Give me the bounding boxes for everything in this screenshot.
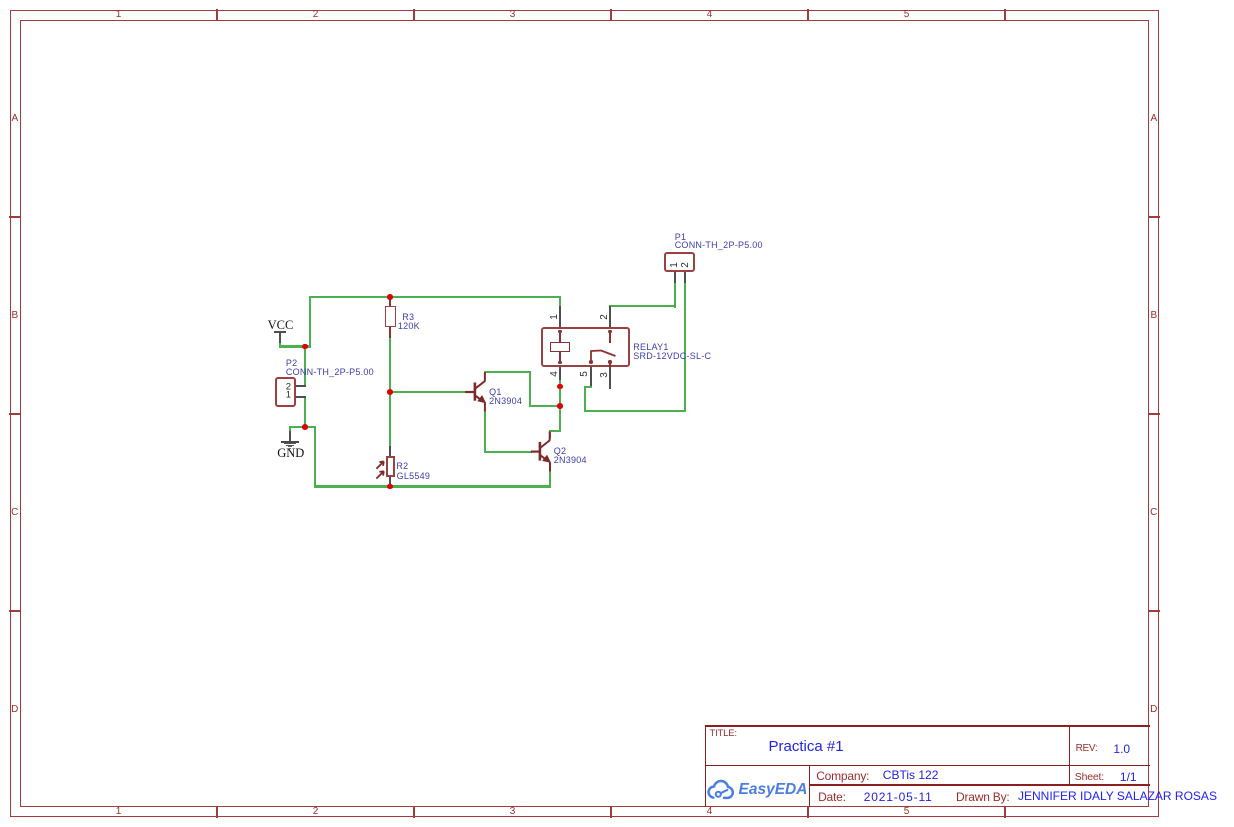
- EasyEDA logo cloud icon: [707, 778, 737, 800]
- top ruler tick 4: [807, 9, 808, 20]
- title block top edge: [705, 725, 1150, 726]
- resistor R3 top lead: [389, 297, 391, 308]
- title block label Company:: [816, 770, 869, 782]
- relay internal pin dot: [558, 330, 561, 333]
- wire: Q2 emitter to bottom rail: [549, 470, 551, 488]
- wire: collector jog to relay pin4 column: [529, 405, 562, 407]
- relay pin number 3: [600, 372, 610, 378]
- left ruler tick 1: [9, 216, 20, 217]
- connector P2 name label: [286, 359, 298, 368]
- P2 pin number 2: [286, 382, 291, 392]
- pin: R2 top lead: [389, 446, 391, 458]
- top ruler tick 2: [413, 9, 414, 20]
- wire: VCC stub lower: [279, 340, 281, 347]
- bottom ruler number 3: [510, 807, 516, 817]
- wire: bottom rail: [314, 485, 551, 487]
- bottom ruler number 1: [116, 807, 122, 817]
- right ruler letter A: [1150, 114, 1157, 124]
- relay internal pin dot: [608, 330, 611, 333]
- EasyEDA logo text: [739, 782, 808, 798]
- wire: left drop from top rail: [309, 296, 311, 348]
- title block row line 1: [705, 765, 1150, 766]
- connector P1 value CONN-TH_2P-P5.00: [675, 241, 763, 250]
- relay coil rectangle: [550, 342, 570, 352]
- wire: P1 pin1 vertical: [674, 281, 676, 308]
- transistor Q1 2N3904 symbol: [462, 368, 490, 416]
- wire: jog to Q2 collector: [549, 430, 562, 432]
- connector P1 body box: [664, 252, 695, 272]
- transistor Q2 value 2N3904: [554, 456, 587, 465]
- relay internal pin dot: [589, 360, 592, 363]
- right ruler letter B: [1150, 311, 1157, 321]
- relay pin number 2: [600, 314, 610, 320]
- bottom ruler tick 5: [1004, 806, 1005, 818]
- GND net label: [277, 447, 304, 460]
- left ruler tick 3: [9, 610, 20, 611]
- wire: pin5 column down: [584, 386, 586, 413]
- right ruler letter D: [1150, 705, 1157, 715]
- wire: relay pin4 column: [559, 377, 561, 432]
- title block label REV:: [1076, 744, 1098, 754]
- top ruler number 4: [707, 10, 713, 20]
- transistor Q1 name label: [489, 388, 502, 397]
- connector P1 name label: [675, 233, 687, 242]
- wire: top VCC rail: [309, 296, 561, 298]
- P1 pin number 1: [670, 262, 680, 268]
- left ruler tick 2: [9, 413, 20, 414]
- title value CBTis 122: [883, 769, 939, 781]
- bottom ruler tick 3: [610, 806, 611, 818]
- wire: collector jog vertical: [529, 371, 531, 407]
- bottom ruler tick 4: [807, 806, 808, 818]
- junction dot node R2 bottom: [387, 484, 393, 490]
- wire: pin5 run to P1 pin2: [584, 410, 687, 412]
- ground symbol bars: [281, 441, 299, 442]
- wire: relay pin5 jog: [584, 386, 593, 388]
- pin: relay pin3 lead (NC): [609, 361, 611, 389]
- resistor R3 value 120K: [398, 322, 420, 331]
- title value 2021-05-11: [864, 791, 933, 803]
- photoresistor R2 name label: [396, 462, 408, 471]
- top ruler tick 5: [1004, 9, 1005, 20]
- pin: P1 pin2 lead: [684, 271, 686, 283]
- photoresistor R2 light arrows: [374, 457, 388, 481]
- relay coil bottom lead: [559, 351, 561, 363]
- VCC net label: [268, 319, 294, 332]
- right ruler letter C: [1150, 508, 1157, 518]
- relay switch blade: [588, 347, 618, 364]
- wire: P1 pin2 vertical: [684, 281, 686, 413]
- wire: Q1 base wire: [389, 391, 466, 393]
- bottom ruler tick 1: [216, 806, 217, 818]
- wire: GND short drop: [289, 426, 291, 434]
- junction dot node Q1 base: [387, 389, 393, 395]
- relay pin number 4: [550, 371, 560, 377]
- relay RELAY1 value SRD-12VDC-SL-C: [633, 352, 711, 361]
- pin: relay pin1 lead: [559, 306, 561, 332]
- title block row line 2: [809, 784, 1150, 785]
- left ruler letter B: [11, 311, 18, 321]
- title block label TITLE:: [710, 729, 737, 739]
- wire: Q1 emitter to Q2 base: [484, 451, 532, 453]
- resistor R3 name label: [402, 313, 414, 322]
- top ruler number 3: [510, 10, 516, 20]
- top ruler number 5: [904, 10, 910, 20]
- resistor R3 body: [385, 306, 396, 327]
- pin: R2 bottom lead: [389, 476, 391, 486]
- left ruler letter C: [11, 508, 18, 518]
- title value Practica #1: [769, 739, 844, 754]
- junction dot node VCC: [302, 344, 308, 350]
- top ruler tick 3: [610, 9, 611, 20]
- title block logo cell divider: [809, 765, 810, 807]
- relay internal pin dot: [558, 361, 561, 364]
- wire: VCC horizontal: [279, 345, 312, 347]
- junction dot node relay pin4 b: [557, 403, 563, 409]
- title value 1/1: [1120, 771, 1137, 783]
- pin: P2 pin2 lead: [295, 385, 306, 387]
- junction dot node R3 top: [387, 294, 393, 300]
- left ruler letter A: [11, 114, 18, 124]
- title block label Sheet:: [1075, 772, 1104, 783]
- bottom ruler number 5: [904, 807, 910, 817]
- junction dot node GND: [302, 424, 308, 430]
- P1 pin number 2: [681, 262, 691, 268]
- pin: relay pin2 lead: [609, 306, 611, 332]
- resistor R3 bottom lead: [389, 327, 391, 338]
- top ruler number 2: [313, 10, 319, 20]
- connector P2 value CONN-TH_2P-P5.00: [286, 368, 374, 377]
- connector P2 body box: [275, 377, 295, 408]
- bottom ruler tick 2: [413, 806, 414, 818]
- ground stem: [289, 431, 291, 443]
- wire: Q1 emitter vertical: [484, 410, 486, 453]
- wire: Q1 collector horizontal: [484, 371, 531, 373]
- title value 1.0: [1113, 743, 1130, 755]
- wire: R3-R2 column: [389, 335, 391, 448]
- transistor Q2 2N3904 symbol: [527, 428, 555, 476]
- wire: P2 pin2 vertical: [304, 345, 306, 387]
- relay RELAY1 name label: [633, 343, 668, 352]
- transistor Q1 value 2N3904: [489, 397, 522, 406]
- title value drawn-by name: [1018, 790, 1217, 802]
- relay pin3 internal lead: [609, 361, 611, 367]
- pin: P1 pin1 lead: [674, 271, 676, 283]
- relay pin number 1: [550, 315, 560, 321]
- VCC power symbol bar: [274, 331, 287, 333]
- pin: P2 pin1 lead: [295, 396, 306, 398]
- wire: drop to bottom rail: [314, 426, 316, 488]
- wire: GND horizontal: [289, 426, 316, 428]
- title block left edge: [705, 725, 706, 807]
- top ruler number 1: [116, 10, 122, 20]
- relay common lead: [609, 330, 611, 343]
- pin: relay pin5 lead: [590, 361, 592, 386]
- junction dot node relay pin4 a: [557, 384, 563, 390]
- pin: relay pin4 lead: [559, 362, 561, 380]
- right ruler tick 1: [1148, 216, 1159, 217]
- relay RELAY1 body box: [541, 327, 630, 367]
- right ruler tick 3: [1148, 610, 1159, 611]
- wire: Q2 collector stub: [549, 430, 551, 438]
- relay coil top lead: [559, 330, 561, 343]
- left ruler letter D: [11, 705, 18, 715]
- photoresistor R2 body: [386, 456, 395, 477]
- relay internal pin dot: [608, 360, 611, 363]
- photoresistor R2 value GL5549: [397, 472, 431, 481]
- title block label Date:: [818, 791, 846, 803]
- right ruler tick 2: [1148, 413, 1159, 414]
- wire: relay pin1 drop: [559, 296, 561, 308]
- wire: relay pin2 riser: [609, 305, 611, 308]
- title block REV column divider: [1069, 725, 1070, 786]
- bottom ruler number 2: [313, 807, 319, 817]
- wire: P2 pin1 vertical: [304, 396, 306, 429]
- relay pin number 5: [580, 371, 590, 377]
- bottom ruler number 4: [707, 807, 713, 817]
- top ruler tick 1: [216, 9, 217, 20]
- wire: relay pin5 stub: [590, 383, 592, 387]
- VCC power symbol stem: [279, 331, 281, 343]
- transistor Q2 name label: [554, 447, 567, 456]
- P2 pin number 1: [286, 391, 291, 401]
- wire: relay pin2 to P1 pin1: [609, 305, 676, 307]
- title block label Drawn By:: [956, 791, 1010, 803]
